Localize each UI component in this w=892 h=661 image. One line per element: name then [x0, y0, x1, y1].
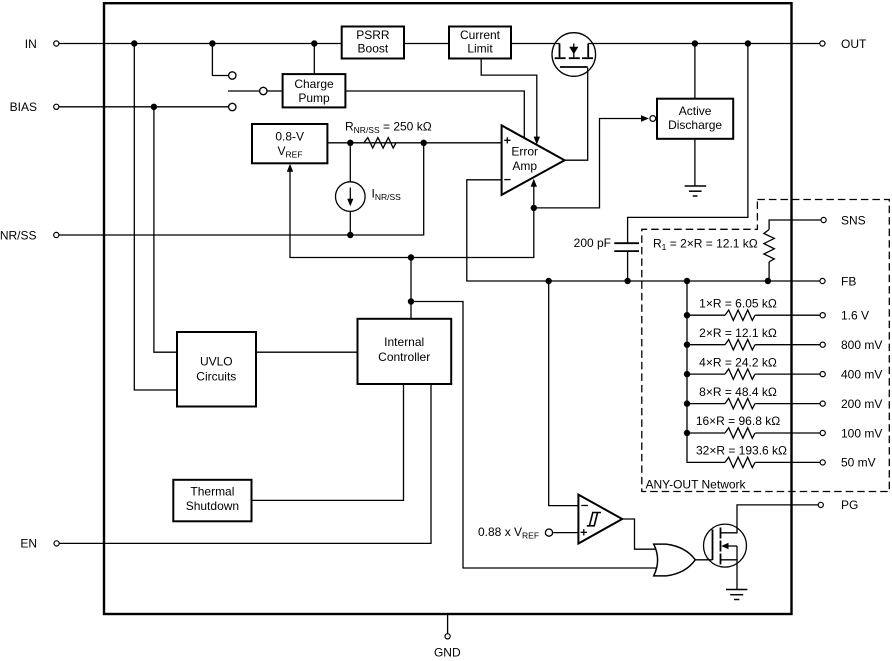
or-gate PG	[654, 544, 696, 576]
wire OUT to Active Discharge top	[694, 44, 696, 99]
svg-text:ANY-OUT Network: ANY-OUT Network	[646, 478, 747, 492]
switch S1 BIAS contact	[229, 103, 236, 110]
svg-text:Limit: Limit	[467, 42, 493, 56]
svg-text:50 mV: 50 mV	[841, 456, 876, 470]
body arrow of PG NMOS	[721, 543, 728, 550]
svg-text:Active: Active	[679, 104, 712, 118]
svg-text:Controller: Controller	[378, 350, 430, 364]
port 200 mV	[820, 397, 882, 411]
port PG	[818, 498, 858, 512]
svg-text:Pump: Pump	[298, 91, 330, 105]
wire Charge Pump output to error amp	[345, 91, 524, 138]
block Current Limit	[449, 27, 511, 59]
port 800 mV	[820, 338, 882, 352]
block Active Discharge	[657, 99, 733, 139]
port EN	[20, 537, 59, 551]
svg-text:Current: Current	[460, 28, 501, 42]
svg-text:200 mV: 200 mV	[841, 397, 882, 411]
wire comparator output to OR gate	[622, 519, 658, 549]
svg-text:OUT: OUT	[841, 37, 867, 51]
switch S1 IN contact	[229, 72, 236, 79]
svg-text:EN: EN	[20, 537, 37, 551]
resistor RNR/SS	[364, 138, 396, 148]
port BIAS	[10, 100, 59, 114]
svg-text:4×R = 24.2 kΩ: 4×R = 24.2 kΩ	[699, 355, 777, 369]
wire error amp output to pass FET gate	[565, 68, 588, 161]
wire Active Discharge bottom to ground	[694, 139, 696, 186]
svg-text:NR/SS: NR/SS	[0, 228, 37, 242]
svg-text:Thermal: Thermal	[190, 484, 234, 498]
dashed ANY-OUT Network boundary	[642, 200, 890, 492]
wire BIAS to UVLO	[154, 107, 177, 352]
block UVLO Circuits	[177, 332, 256, 407]
wire OUT to feedforward capacitor	[628, 44, 748, 244]
switch S1 pole	[260, 87, 267, 94]
wire R1 bottom to FB	[768, 262, 770, 281]
svg-text:R1 = 2×R = 12.1 kΩ: R1 = 2×R = 12.1 kΩ	[653, 237, 758, 253]
port 400 mV	[820, 367, 882, 381]
wire UVLO to Internal Controller	[256, 351, 358, 353]
wire PG FET drain to PG port	[721, 505, 819, 533]
wire error amp inverting input to FB	[467, 180, 820, 281]
resistor 4xR row	[687, 355, 820, 379]
wire Current Limit to error amp	[481, 59, 537, 138]
wire 0.88 VREF to comparator	[553, 532, 578, 534]
op-amp error amplifier	[502, 125, 565, 194]
block PSRR Boost	[342, 27, 404, 59]
body diode of pass transistor	[569, 47, 578, 54]
wire GND stub	[447, 615, 449, 634]
svg-text:1×R = 6.05 kΩ: 1×R = 6.05 kΩ	[699, 296, 777, 310]
switch S1 blade	[228, 90, 259, 92]
wire switch pole to Charge Pump	[267, 90, 282, 92]
svg-text:1.6 V: 1.6 V	[841, 309, 869, 323]
svg-text:Internal: Internal	[384, 335, 424, 349]
resistor 32xR row	[696, 444, 820, 468]
ground under Active Discharge	[685, 186, 707, 196]
svg-text:Circuits: Circuits	[196, 369, 236, 383]
wire FB to comparator inverting input	[549, 281, 579, 506]
capacitor 200 pF	[614, 243, 639, 251]
wire OUT rail	[588, 43, 820, 45]
wire capacitor bottom to FB	[627, 251, 629, 281]
wire OR gate output to PG FET gate	[695, 559, 712, 561]
block Internal Controller	[358, 319, 452, 384]
port 100 mV	[820, 426, 882, 440]
resistor 16xR row	[687, 414, 820, 438]
wire EN	[59, 384, 431, 543]
wire controller node to OR gate input	[411, 302, 658, 569]
wire PG FET source to ground	[721, 560, 738, 590]
wire Thermal Shutdown to Internal Controller	[252, 384, 404, 500]
input bubble Active Discharge	[650, 116, 656, 122]
wire ANY-OUT resistor bus	[687, 281, 725, 462]
svg-text:32×R = 193.6 kΩ: 32×R = 193.6 kΩ	[696, 444, 787, 458]
wire IN to Charge Pump	[313, 44, 315, 75]
svg-text:IN: IN	[25, 37, 37, 51]
wire node to Internal Controller top	[410, 258, 412, 320]
svg-text:PG: PG	[841, 498, 858, 512]
arrow into error amp bottom edge	[531, 179, 537, 187]
svg-text:UVLO: UVLO	[200, 354, 233, 368]
svg-text:200 pF: 200 pF	[574, 236, 611, 250]
arrow into Active Discharge bubble	[641, 115, 649, 121]
svg-text:400 mV: 400 mV	[841, 367, 882, 381]
wire to Active Discharge input	[534, 119, 642, 208]
comparator with hysteresis	[578, 495, 622, 544]
resistor 2xR row	[687, 326, 820, 350]
transistor PG NMOS	[704, 524, 747, 567]
block 0.8-V VREF	[252, 124, 327, 163]
arrow into error amp top edge	[534, 137, 540, 145]
port 50 mV	[820, 456, 876, 470]
svg-text:800 mV: 800 mV	[841, 338, 882, 352]
svg-text:8×R = 48.4 kΩ: 8×R = 48.4 kΩ	[699, 385, 777, 399]
svg-text:100 mV: 100 mV	[841, 426, 882, 440]
pass transistor PMOS	[552, 33, 596, 77]
wire BIAS	[59, 106, 228, 108]
svg-text:Shutdown: Shutdown	[186, 499, 239, 513]
wire IN to UVLO	[134, 44, 177, 391]
svg-text:2×R = 12.1 kΩ: 2×R = 12.1 kΩ	[699, 326, 777, 340]
resistor 8xR row	[687, 385, 820, 409]
svg-text:Discharge: Discharge	[668, 118, 722, 132]
svg-text:SNS: SNS	[841, 213, 866, 227]
port GND	[434, 634, 461, 660]
wire IN rail	[59, 43, 559, 45]
svg-text:Boost: Boost	[358, 42, 389, 56]
wire error amp bottom drive	[533, 187, 535, 208]
resistor R1	[764, 230, 774, 262]
svg-text:Charge: Charge	[294, 77, 334, 91]
wire NR/SS	[59, 143, 424, 235]
svg-text:16×R = 96.8 kΩ: 16×R = 96.8 kΩ	[696, 414, 780, 428]
port 1.6 V	[820, 309, 869, 323]
port OUT	[820, 37, 867, 51]
port FB	[820, 274, 856, 288]
ground under PG NMOS	[726, 590, 747, 600]
wire IN to switch contact	[212, 44, 228, 76]
svg-text:GND: GND	[434, 646, 461, 660]
port NR/SS	[0, 228, 59, 242]
svg-text:Error: Error	[511, 144, 538, 158]
current source INR/SS	[336, 143, 366, 235]
wire SNS to R1 top	[769, 220, 821, 230]
port SNS	[821, 213, 866, 227]
input bubble 0.88 VREF	[545, 529, 552, 536]
resistor 1xR row	[687, 296, 820, 320]
arrow into VREF box bottom	[287, 164, 293, 172]
block Charge Pump	[283, 74, 346, 107]
svg-text:FB: FB	[841, 274, 856, 288]
wire VREF to error amp noninverting input	[327, 142, 501, 144]
IC boundary outer box	[104, 3, 792, 614]
block Thermal Shutdown	[173, 480, 251, 522]
svg-text:PSRR: PSRR	[356, 28, 390, 42]
svg-text:BIAS: BIAS	[10, 100, 37, 114]
svg-text:0.8-V: 0.8-V	[275, 130, 304, 144]
port IN	[25, 37, 59, 51]
wire VREF enable from controller node	[290, 169, 534, 258]
svg-text:Amp: Amp	[512, 159, 537, 173]
